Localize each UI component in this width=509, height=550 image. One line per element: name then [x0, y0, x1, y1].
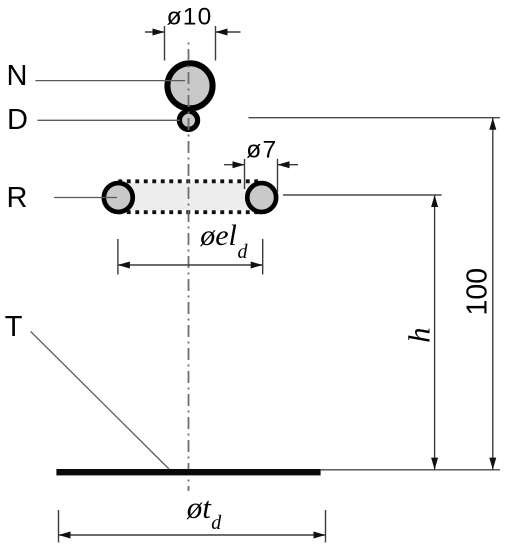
dim Ø7 dimension line right tail	[278, 164, 299, 166]
dim el_d left arrow	[118, 262, 130, 269]
dim el_d right extension line	[262, 239, 264, 275]
dim el_d dimension line	[118, 264, 263, 266]
ring tube left circle	[104, 183, 133, 212]
dim Ø7 dimension line left tail	[224, 164, 245, 166]
target plate T	[56, 469, 320, 475]
dim 100 top arrow	[489, 118, 496, 130]
svg-text:d: d	[211, 512, 222, 534]
nozzle circle N	[167, 63, 212, 108]
dim t_d left arrow	[59, 532, 71, 539]
dim el_d right arrow	[251, 262, 263, 269]
dim 100 vertical line	[492, 118, 494, 470]
svg-text:d: d	[238, 241, 249, 263]
dim Ø10 dimension line right tail	[216, 31, 241, 33]
svg-text:ø7: ø7	[246, 137, 277, 164]
dim t_d left extension line	[58, 510, 60, 543]
dim t_d right arrow	[314, 532, 326, 539]
dim t_d right extension line	[325, 510, 327, 543]
ring tube top dotted line	[118, 179, 261, 183]
reference line for h dimension	[283, 194, 442, 196]
svg-text:h: h	[401, 327, 436, 343]
svg-text:øt: øt	[186, 490, 213, 525]
dim h top arrow	[431, 195, 438, 207]
dim Ø7 left arrow	[233, 161, 245, 168]
dim 100 bottom arrow	[489, 458, 496, 470]
dim h vertical line	[434, 195, 436, 470]
ring tube body (dotted rectangle)	[118, 183, 261, 211]
dim Ø7 left extension line	[244, 159, 246, 189]
svg-text:T: T	[5, 311, 23, 343]
svg-text:N: N	[7, 60, 28, 92]
dim Ø7 right extension line	[277, 159, 279, 192]
leader line R	[54, 197, 117, 199]
leader line D	[38, 119, 181, 121]
dim Ø10 dimension line left tail	[145, 31, 165, 33]
dim Ø10 left arrow	[153, 29, 165, 36]
svg-text:øel: øel	[199, 219, 237, 252]
dim h bottom arrow	[431, 458, 438, 470]
dim t_d dimension line	[59, 534, 326, 536]
svg-text:R: R	[7, 182, 28, 214]
dim Ø10 right arrow	[216, 29, 228, 36]
leader line N	[35, 80, 185, 82]
dim Ø10 left extension line	[164, 26, 166, 61]
svg-text:D: D	[7, 104, 28, 136]
dim el_d left extension line	[117, 239, 119, 275]
ring tube right circle	[247, 183, 276, 212]
dim Ø10 right extension line	[215, 26, 217, 61]
reference line for 100 dimension	[248, 117, 500, 119]
svg-text:ø10: ø10	[167, 3, 213, 30]
ring tube bottom dotted line	[118, 210, 261, 214]
plate reference extension line to right	[321, 469, 500, 471]
leader line T (diagonal)	[31, 331, 169, 469]
droplet circle D	[179, 111, 197, 129]
center line (vertical dash-dot axis)	[188, 40, 190, 491]
dim Ø7 right arrow	[278, 161, 290, 168]
svg-text:100: 100	[461, 268, 493, 316]
